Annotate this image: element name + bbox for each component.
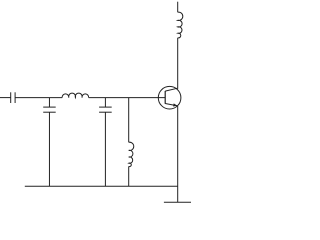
wire collector to Q1 (177, 38, 179, 89)
ground (164, 201, 191, 203)
wire C1 to L3 (15, 97, 62, 99)
wire ground rail (25, 185, 178, 187)
wire L3 to Q1 base (89, 97, 166, 99)
capacitor C1 (11, 92, 15, 103)
transistor Q1 (158, 86, 181, 109)
inductor L1 (178, 12, 183, 38)
wire input left (0, 97, 11, 99)
capacitor C2 (43, 98, 56, 187)
capacitor C3 (99, 98, 112, 187)
inductor L2 (129, 98, 134, 187)
inductor L3 (62, 93, 88, 97)
wire emitter down (177, 106, 179, 202)
wire collector top stub (177, 2, 179, 13)
